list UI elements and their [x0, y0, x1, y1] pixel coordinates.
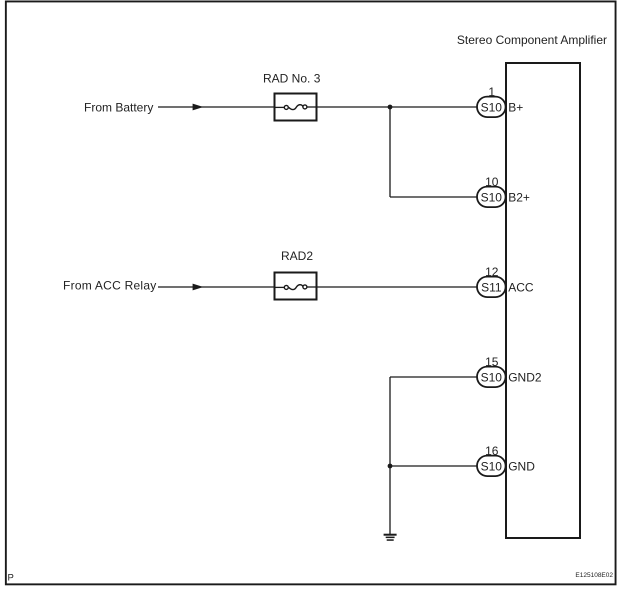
svg-text:S11: S11	[481, 281, 502, 295]
svg-text:ACC: ACC	[508, 281, 534, 295]
svg-text:S10: S10	[481, 101, 503, 115]
svg-text:GND2: GND2	[508, 371, 542, 385]
svg-text:B2+: B2+	[508, 191, 530, 205]
svg-text:From Battery: From Battery	[84, 101, 153, 115]
svg-text:RAD2: RAD2	[281, 249, 313, 263]
svg-text:S10: S10	[481, 191, 503, 205]
svg-text:E125108E02: E125108E02	[575, 572, 613, 579]
svg-text:Stereo Component Amplifier: Stereo Component Amplifier	[457, 33, 607, 47]
svg-text:GND: GND	[508, 460, 535, 474]
svg-text:P: P	[8, 573, 14, 584]
svg-text:RAD No. 3: RAD No. 3	[263, 72, 321, 86]
svg-text:S10: S10	[481, 371, 503, 385]
svg-text:B+: B+	[508, 101, 523, 115]
svg-text:S10: S10	[481, 460, 503, 474]
svg-text:From ACC Relay: From ACC Relay	[63, 279, 157, 293]
